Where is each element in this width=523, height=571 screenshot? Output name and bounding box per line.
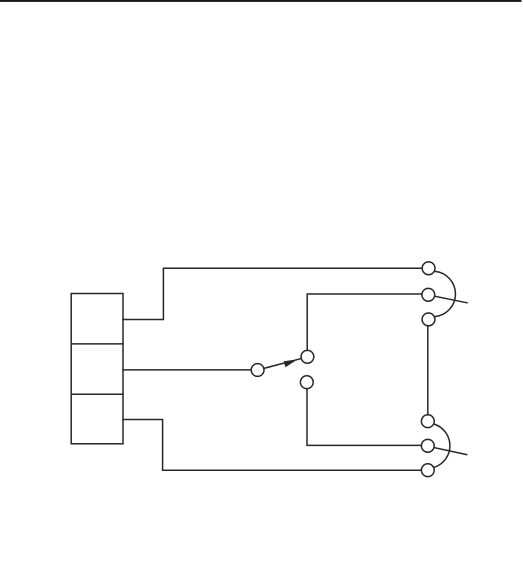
switch S1 upper throw terminal bbox=[301, 350, 314, 363]
wire: battery top terminal to rotary contact T1 bbox=[123, 268, 422, 319]
rotary group RS2 wiper blade bbox=[434, 448, 467, 455]
battery B1 (3-cell block) bbox=[71, 294, 123, 444]
switch S1 blade bbox=[264, 359, 302, 369]
switch S1 pole terminal bbox=[251, 364, 264, 377]
rotary group RS1 arc bbox=[435, 271, 456, 316]
rotary group RS1 wiper blade bbox=[435, 296, 467, 303]
wire: lower terminal to rotary contact B2 bbox=[307, 389, 421, 446]
switch S1 lower terminal bbox=[300, 376, 313, 389]
wire: rotary T3 to rotary B1 bbox=[427, 326, 429, 415]
rotary group RS2 contact B1 bbox=[421, 415, 434, 428]
rotary group RS2 contact B3 bbox=[421, 464, 434, 477]
rotary group RS1 contact T1 bbox=[422, 262, 435, 275]
wire: upper throw terminal to rotary contact T2 bbox=[307, 294, 422, 350]
rotary group RS2 arc bbox=[434, 424, 450, 467]
switch S1 blade arrowhead bbox=[284, 359, 298, 367]
wire: battery middle terminal to switch S1 pole bbox=[123, 369, 251, 371]
rotary group RS1 contact T3 bbox=[422, 313, 435, 326]
rotary group RS2 contact B2 bbox=[421, 439, 434, 452]
rotary group RS1 contact T2 bbox=[422, 288, 435, 301]
wire: battery bottom terminal to rotary contact B3 bbox=[123, 420, 421, 471]
